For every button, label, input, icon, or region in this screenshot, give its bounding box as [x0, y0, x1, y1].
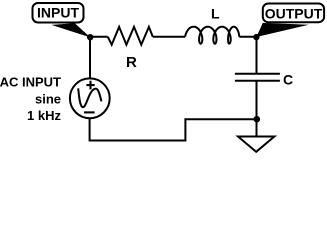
svg-text:INPUT: INPUT: [37, 5, 79, 21]
svg-text:AC INPUT: AC INPUT: [0, 75, 61, 90]
svg-text:C: C: [283, 72, 293, 88]
svg-text:sine: sine: [35, 92, 61, 107]
svg-text:L: L: [211, 6, 220, 22]
svg-text:1 kHz: 1 kHz: [27, 108, 61, 123]
svg-text:R: R: [126, 54, 137, 71]
svg-text:OUTPUT: OUTPUT: [265, 6, 323, 22]
